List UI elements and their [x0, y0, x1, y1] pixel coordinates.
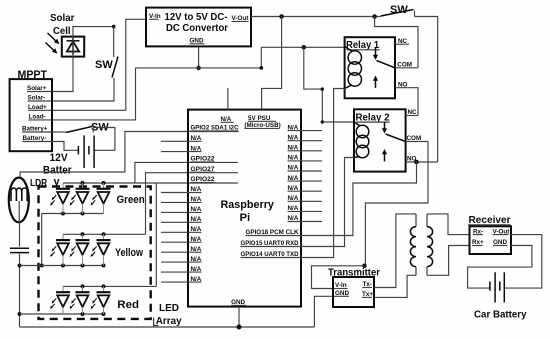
wire Tx- to primary top	[374, 214, 416, 288]
wire capacitor to ground rail	[19, 254, 21, 327]
pin left N/A row11	[161, 226, 202, 233]
relay 2 pin COM	[406, 135, 428, 142]
wire GPIO22 to green anode rail	[135, 162, 238, 183]
switch SW battery	[52, 122, 115, 151]
pin bottom GND	[231, 299, 246, 327]
pin left N/A row12	[161, 236, 202, 243]
svg-text:Yellow: Yellow	[115, 247, 143, 259]
svg-text:DC Convertor: DC Convertor	[166, 23, 228, 34]
node solar top corner	[112, 25, 116, 29]
solar cell PV1	[62, 37, 84, 57]
capacitor C1	[10, 248, 29, 252]
wire solar+ through cell	[52, 27, 114, 92]
svg-text:Green: Green	[117, 194, 145, 206]
light arrows into solar cell	[46, 33, 60, 54]
wire GPIO2 to LDR rail	[20, 132, 239, 178]
node top rail to 5V PSU	[279, 14, 284, 19]
pin left GPIO22 row6	[191, 176, 216, 183]
solar cell label	[50, 13, 75, 37]
wire V-Out top rail	[251, 16, 381, 18]
LED yellow D2	[70, 234, 90, 265]
pin right N/A row1	[288, 124, 323, 131]
relay 2 K2	[354, 109, 406, 171]
pin left N/A row3	[161, 145, 202, 152]
wire GPIO27 to yellow anode rail	[146, 173, 239, 235]
wire V-Out to car battery positive	[504, 235, 542, 289]
pin top 5V PSU Micro-USB	[244, 115, 280, 129]
LED array bracket	[154, 318, 159, 326]
yellow anode rail	[63, 232, 146, 236]
LED green D1	[50, 183, 70, 214]
car battery BT2	[474, 272, 527, 320]
pin right N/A row9	[288, 205, 323, 212]
relay 1 NC contact arrow	[373, 48, 378, 60]
wire GND rail	[136, 47, 262, 68]
pin right N/A row5	[288, 165, 323, 172]
pin left N/A row13	[161, 246, 202, 253]
pin right N/A row10	[288, 215, 323, 222]
pin left N/A row2	[161, 135, 202, 142]
MPPT charge controller U3	[10, 69, 52, 151]
svg-text:12V to 5V DC-: 12V to 5V DC-	[165, 12, 228, 23]
relay 1 K1	[345, 37, 395, 98]
svg-text:Raspberry: Raspberry	[221, 199, 275, 211]
svg-text:LED: LED	[159, 303, 179, 314]
pin right N/A row2	[288, 134, 323, 141]
node yellow cathode junction	[18, 264, 22, 268]
wire secondary top to Rx-	[427, 214, 470, 235]
LED green D2	[70, 183, 90, 214]
red anode rail	[63, 284, 156, 288]
pin left N/A row15	[161, 266, 202, 273]
relay 2 arm	[386, 134, 406, 142]
node GND rail junction	[196, 66, 201, 71]
pin right GPIO15 UART0 RXD	[241, 240, 302, 247]
relay 1 pin NC	[395, 38, 409, 45]
relay 1 pin NO	[395, 81, 418, 115]
node relay2 NO junction	[414, 160, 419, 165]
pin left N/A row10	[161, 216, 202, 223]
LED red D2	[70, 286, 90, 314]
pin left GPIO27 row5	[191, 166, 216, 173]
svg-text:12V: 12V	[50, 152, 69, 164]
wire Tx+ to primary bottom	[374, 275, 416, 297]
svg-text:Red: Red	[117, 299, 139, 311]
node red cathode junction	[18, 312, 22, 316]
pin right N/A row6	[288, 175, 323, 182]
pin left N/A row16	[161, 276, 202, 283]
wire GND pin drop	[198, 46, 200, 68]
wire V-In junction to transmitter	[312, 266, 365, 289]
LED yellow D1	[50, 234, 70, 265]
wire branch to relay2 coil top	[304, 47, 354, 123]
svg-text:Array: Array	[156, 316, 182, 327]
pin left N/A row9	[161, 206, 202, 213]
wire ground rail bottom	[20, 326, 315, 328]
wire relay2 coil bottom to GPIO15 RXD	[301, 158, 354, 247]
relay 1 pin COM	[395, 61, 418, 68]
pin left GPIO2 SDA1 I2C row1	[191, 125, 239, 132]
node transmitter V-In junction	[362, 264, 367, 269]
relay 1 NO contact arrow	[373, 76, 378, 89]
pin right GPIO14 UART0 TXD	[241, 251, 302, 258]
LED red D3	[91, 286, 111, 314]
relay 2 NC contact arrow	[382, 122, 387, 134]
pin left GPIO22 row4	[191, 156, 216, 163]
LED array label	[156, 303, 182, 327]
LED red D1	[50, 286, 70, 314]
wire green cathode down	[40, 214, 44, 268]
pin right N/A row3	[288, 145, 323, 152]
relay 2 pin NC	[406, 109, 418, 116]
Raspberry Pi U1	[188, 110, 301, 307]
wire relay2 NO to GPIO18 PCM CLK	[301, 162, 417, 236]
switch SW main	[381, 4, 438, 162]
yellow cathode rail	[20, 264, 106, 268]
svg-text:Solar: Solar	[50, 13, 75, 24]
svg-text:Car Battery: Car Battery	[474, 309, 527, 321]
wire ground rail to transmitter GND	[314, 296, 335, 327]
wire top rail to relay1 COM	[375, 17, 418, 68]
wire V-In to MPPT Load+	[52, 19, 146, 110]
wire LDR to capacitor	[19, 221, 21, 247]
battery 12V BT1	[43, 135, 94, 188]
relay 2 coil	[354, 122, 369, 158]
pin right N/A row4	[288, 155, 323, 162]
pin top N/A	[221, 88, 234, 123]
node ground rail Pi GND	[237, 325, 242, 330]
transformer T1 primary winding	[410, 214, 416, 275]
pin right GPIO18 PCM CLK	[246, 229, 302, 236]
node top rail to relay1 COM	[372, 14, 377, 19]
svg-text:Pi: Pi	[240, 212, 251, 224]
LED yellow D3	[91, 234, 111, 265]
relay 1 coil	[345, 47, 362, 89]
node gnd rail corner	[259, 66, 263, 70]
transformer T1 secondary winding	[427, 214, 433, 275]
node coil branch junction	[302, 45, 307, 50]
switch SW solar	[52, 27, 118, 101]
wire 5V PSU feed	[262, 17, 282, 110]
relay 1 arm	[377, 61, 396, 68]
wire GPIO22b green-red anode line	[63, 183, 238, 286]
wire relay1 coil bottom to GPIO14 TXD	[301, 89, 345, 258]
LED array dashed enclosure	[39, 187, 151, 319]
svg-text:SW: SW	[95, 59, 113, 71]
wire receiver GND to car battery negative	[468, 246, 532, 289]
dc-dc convertor U2	[146, 8, 251, 47]
receiver U5	[468, 215, 511, 254]
wire relay2 COM to transmitter V-In	[365, 142, 428, 266]
relay 2 NO contact arrow	[382, 149, 387, 162]
pin left N/A row14	[161, 256, 202, 263]
green anode rail nodes	[81, 181, 106, 185]
red cathode rail	[20, 312, 106, 316]
green cathode rail	[42, 212, 104, 216]
wire GND rail to MPPT Load-	[52, 68, 136, 120]
transmitter U4	[328, 268, 380, 308]
wire secondary bottom to Rx+	[427, 246, 470, 276]
LDR R1	[9, 178, 48, 223]
svg-text:Batter: Batter	[43, 165, 72, 177]
LED green D3	[91, 183, 111, 214]
svg-text:Cell: Cell	[53, 26, 71, 37]
pin right N/A row8	[288, 195, 323, 202]
wire GND to relay1 coil top	[261, 46, 344, 48]
pin left N/A row8	[161, 196, 202, 203]
relay 2 pin NO	[406, 156, 438, 163]
pin left N/A row7	[161, 186, 202, 193]
pin right N/A row7	[288, 185, 323, 192]
